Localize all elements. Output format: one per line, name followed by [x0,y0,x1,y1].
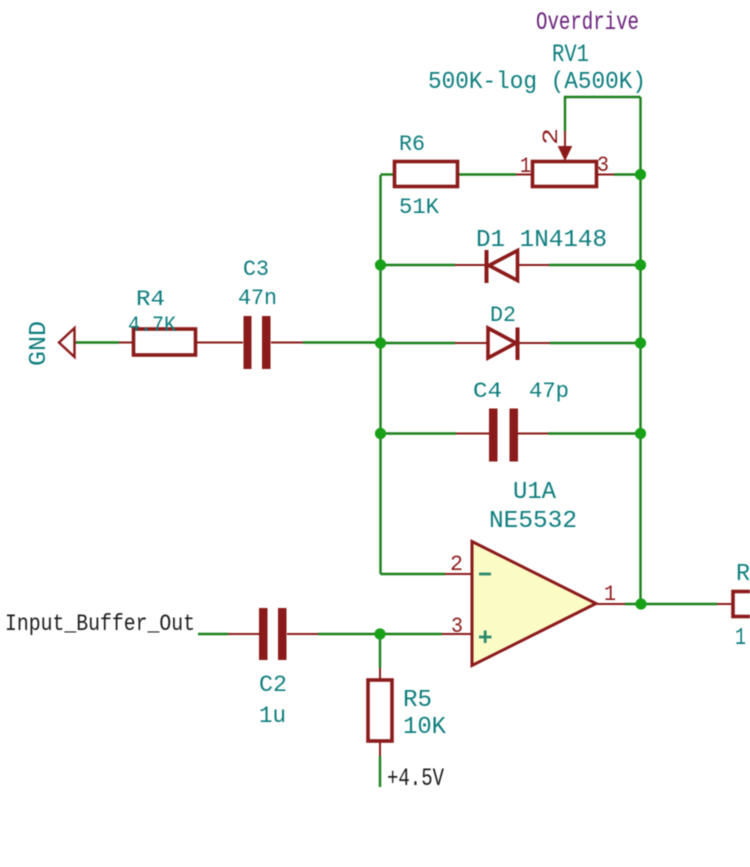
junction dot F (640,265) [635,259,646,270]
junction dot H (640,433) [635,428,646,439]
capacitor C2 [259,608,287,660]
svg-text:4.7K: 4.7K [128,313,177,338]
svg-text:R4: R4 [136,287,165,312]
resistor R6 [395,162,458,187]
svg-text:3: 3 [451,614,463,639]
junction dot C (380,433) [375,428,386,439]
wire junction to opamp pin3 [380,633,442,635]
svg-text:Overdrive: Overdrive [536,8,639,37]
svg-text:1u: 1u [259,703,286,729]
wire D1 row left [381,264,456,266]
junction dot B (380,343) [375,337,386,348]
svg-text:2: 2 [450,552,463,577]
wire D2 row left [381,342,456,344]
junction dot E (640,174) [635,169,646,180]
wire pot pin2 top run [565,97,641,131]
svg-text:10K: 10K [403,714,447,741]
resistor R4 [134,329,196,355]
capacitor C4 [489,409,518,462]
svg-text:R5: R5 [403,687,432,714]
potentiometer RV1 [533,131,597,187]
wire C2 to junction [287,633,318,635]
wire GND to R4 [75,341,119,343]
svg-text:C3: C3 [243,257,269,282]
svg-text:2: 2 [539,128,564,145]
svg-text:RV1: RV1 [552,40,589,69]
capacitor C3 [244,316,271,369]
svg-text:R6: R6 [399,132,425,157]
diode D1 [487,250,518,283]
svg-text:C2: C2 [259,672,287,698]
wire R4 to C3 [196,342,243,344]
wire R5 bottom to +4.5V [379,742,381,756]
resistor R7 right edge [733,592,750,617]
wire input label to C2 [198,633,228,635]
wire R6 row left [381,173,395,175]
wire D1 row right [517,264,549,266]
op-amp plus sign [479,631,492,644]
wire right vertical bus [639,97,641,604]
svg-text:D2: D2 [490,303,516,328]
wire C4 row right [518,433,548,435]
svg-text:U1A: U1A [513,479,557,506]
wire D2 row right [519,342,550,344]
wire R6 to RV1 [458,173,516,175]
svg-text:1: 1 [735,625,746,652]
svg-text:1: 1 [604,582,616,607]
junction dot A (380,265) [375,259,386,270]
wire R5 top [379,634,381,668]
diode D2 [488,328,518,361]
wire left vertical bus [379,175,381,574]
svg-text:C4: C4 [473,379,502,404]
svg-text:D1 1N4148: D1 1N4148 [476,227,607,254]
svg-text:1: 1 [520,154,531,179]
svg-text:500K-log (A500K): 500K-log (A500K) [428,69,646,96]
svg-text:3: 3 [597,153,609,178]
svg-text:+4.5V: +4.5V [387,764,444,793]
wire opamp output [596,603,625,605]
svg-text:47p: 47p [529,379,569,404]
svg-text:Input_Buffer_Out: Input_Buffer_Out [5,611,195,637]
wire C3 to junction [271,342,303,344]
wire opamp pin2 row [381,573,446,575]
ground symbol [59,328,75,357]
resistor R5 [368,680,392,741]
svg-text:R: R [736,561,750,588]
svg-text:GND: GND [26,321,53,366]
wire RV1 pin3 to bus [597,174,614,176]
op-amp U1A [472,542,596,666]
svg-text:47n: 47n [238,286,277,311]
op-amp minus sign [479,573,491,576]
junction dot D (380,634) [374,628,385,639]
junction dot I (641,604) [635,598,646,609]
svg-text:NE5532: NE5532 [489,508,577,535]
wire C4 row left [381,432,457,434]
svg-text:51K: 51K [399,195,440,220]
junction dot G (640,343) [635,337,646,348]
